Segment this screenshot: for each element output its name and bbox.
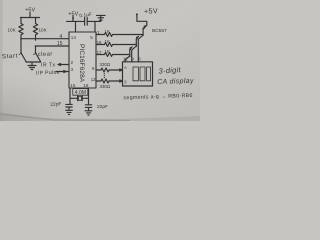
svg-text:16: 16 [83,83,89,88]
wire stem from +5V left [29,13,31,18]
pin 1 label [97,30,100,35]
+5V supply label mid [68,11,78,17]
wire node start to pin 4 [21,38,69,40]
switch SW-clear [35,52,36,53]
node dot right column [35,45,37,47]
pin 18 label [97,40,102,45]
switch SW-start [20,52,21,53]
pin 5 label [90,35,93,40]
crystal X1 symbol [70,96,89,101]
svg-text:330Ω: 330Ω [100,62,111,67]
svg-text:3-digit: 3-digit [158,65,181,76]
svg-text:4.0M: 4.0M [75,90,86,96]
segments note [123,93,192,101]
pin 6 label [92,66,95,71]
transistor Q3 BC557 [130,47,132,50]
segment g pin label [124,79,126,84]
svg-text:CA display: CA display [157,78,194,86]
3-digit CA display note [157,65,194,86]
resistor R-start 10K [19,18,23,39]
wire pin 6 segment-a with resistor 330 [96,68,123,72]
digit 2 [140,67,145,81]
svg-text:10K: 10K [39,28,48,33]
capacitor C2 22pF [85,105,91,111]
pin 14 label [71,35,77,40]
svg-text:15: 15 [57,41,63,47]
svg-text:IR Tx: IR Tx [41,63,56,69]
ground top (upward) [87,15,105,21]
digit 1 [133,67,138,81]
svg-text:10K: 10K [8,28,17,33]
transistor Q1 BC557 [143,25,147,29]
svg-text:clear: clear [38,51,53,58]
svg-text:BC557: BC557 [152,28,167,34]
paper grain [0,0,200,121]
svg-text:Start: Start [2,53,18,61]
pin 15 label (clear line) [57,41,63,47]
BC557 label [152,28,167,34]
segment a pin label [124,65,127,70]
svg-text:14: 14 [71,35,77,40]
+5V supply label left [25,7,35,13]
wire stub to pin 14 [75,21,77,32]
pin 4 label [60,34,63,40]
node dot on +5V stem [72,17,74,19]
pin 2 label [71,60,74,65]
+5V supply label right [144,6,158,16]
wire stem right supply [137,14,147,25]
wire pin 1 to Q1 base [96,33,143,37]
resistor 1K (Q3) label [105,49,110,54]
wire I/P Pulse into pin 3 [56,71,69,73]
paper bottom edge shadow [0,112,201,122]
svg-text:PIC16F628A: PIC16F628A [78,44,85,83]
resistor 1K (Q1) label [105,29,110,34]
resistor 1K (Q2) label [105,39,110,44]
pin 12 label [91,77,96,82]
node dot left column [20,38,22,40]
wire left column down [20,39,22,53]
transistor Q2 BC557 [136,36,138,39]
svg-text:1K: 1K [105,49,110,54]
capacitor 0.1uF [85,18,88,26]
wire node clear to pin 15 [36,45,70,47]
ground under switches [28,66,36,70]
paper left edge shading [0,0,3,121]
wire OSC1 pin 15 down [69,88,71,104]
wire IR Tx out pin 2 [58,64,69,66]
pin 16 label [83,83,89,88]
svg-text:1K: 1K [105,29,110,34]
svg-text:17: 17 [97,50,102,55]
svg-text:+5V: +5V [144,6,158,16]
svg-text:I/P Pulse: I/P Pulse [36,70,60,77]
node dot +5V right [136,13,138,15]
svg-text:1K: 1K [105,39,110,44]
svg-text:5: 5 [90,35,93,40]
svg-text:12: 12 [91,77,96,82]
svg-text:15: 15 [70,83,76,88]
wire stem mid [72,16,74,21]
svg-text:18: 18 [97,40,102,45]
ground under C2 [85,111,92,115]
display anode pin 8 label [138,57,141,62]
wire switch bottoms [26,62,41,66]
pin 17 label [97,50,102,55]
display DS1 3-digit body [123,62,153,86]
capacitor C1 22pF [66,104,72,110]
IC U1 PIC16F628A body [69,32,96,88]
wire pin 12 segment-g with resistor 330 [96,79,123,83]
wire stub to pin 5 [94,21,96,32]
ground under C1 [66,110,73,114]
svg-text:330Ω: 330Ω [100,84,111,89]
wire top-left rail [21,17,40,19]
display anode pin 12 label [123,56,128,61]
svg-text:22pF: 22pF [97,104,108,110]
pin 3 label [71,67,74,72]
wire OSC2 pin 16 down [88,88,90,104]
crystal X1 label box 4.0M [73,89,88,96]
svg-text:g: g [124,79,126,84]
svg-text:4: 4 [60,34,63,40]
pin 15 label [70,83,76,88]
display anode pin 9 label [132,57,135,62]
wire right column down [35,46,37,52]
wire VDD rail [67,20,85,22]
svg-text:22pF: 22pF [50,101,61,108]
dots between segment resistors [104,73,105,74]
svg-text:12: 12 [123,56,128,61]
wire pin 17 to Q3 base [96,53,130,57]
digit 3 [147,67,151,81]
wire pin 18 to Q2 base [96,43,137,47]
resistor R-clear 10K [33,18,37,41]
